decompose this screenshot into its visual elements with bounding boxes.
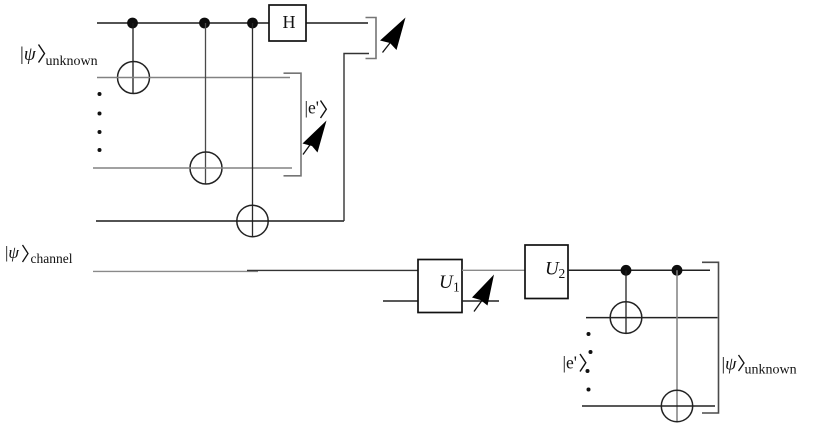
wire q3 bbox=[96, 220, 344, 222]
label ket e' bottom bbox=[563, 353, 586, 373]
wire channel dark segment bbox=[247, 269, 418, 271]
wire q0 segment left (top wire into H) bbox=[97, 22, 270, 24]
gate U2 box bbox=[525, 245, 568, 299]
wire control line from C5 bbox=[676, 270, 678, 422]
control dot C2 bbox=[199, 18, 210, 29]
control dot C5 bbox=[672, 265, 683, 276]
wire b3 bbox=[582, 405, 715, 407]
wire U1 to U2 bbox=[462, 269, 525, 271]
control dot C4 bbox=[621, 265, 632, 276]
wire route from measurement down to q3 bbox=[344, 54, 369, 222]
CNOT target X4 bbox=[610, 302, 642, 334]
measurement arrow A2 head bbox=[303, 121, 327, 153]
wire control line from C4 bbox=[625, 270, 627, 333]
control dot C3 bbox=[247, 18, 258, 29]
svg-text:1: 1 bbox=[453, 280, 460, 295]
CNOT target X1 bbox=[118, 62, 150, 94]
svg-text:H: H bbox=[283, 12, 296, 32]
label ket e' top bbox=[305, 98, 327, 119]
wire control line from C1 bbox=[132, 23, 134, 94]
svg-text:|ψ: |ψ bbox=[722, 354, 738, 374]
wire q1 bbox=[97, 77, 290, 79]
bracket output right bbox=[702, 262, 719, 413]
measurement arrow A3 head bbox=[472, 275, 494, 306]
CNOT target X2 bbox=[190, 152, 222, 184]
label ket psi channel bbox=[5, 243, 73, 266]
svg-text:|e': |e' bbox=[305, 98, 319, 118]
ellipsis dots bottom group bbox=[586, 332, 593, 392]
bracket e' group bbox=[284, 73, 302, 176]
svg-text:channel: channel bbox=[31, 251, 73, 266]
wire channel gray segment bbox=[93, 270, 258, 272]
wire control line from C3 bbox=[252, 23, 254, 237]
svg-text:|ψ: |ψ bbox=[5, 243, 19, 262]
label ket psi unknown right bbox=[722, 354, 797, 378]
wire U2 output bbox=[568, 269, 710, 271]
bracket measurement top-right bbox=[366, 18, 377, 59]
svg-text:unknown: unknown bbox=[745, 363, 797, 378]
gate U1 box bbox=[418, 260, 462, 313]
gate H box bbox=[269, 5, 306, 41]
CNOT target X3 bbox=[237, 205, 268, 236]
wire q2 bbox=[93, 167, 292, 169]
wire U1 second input bbox=[383, 300, 418, 302]
wire q0 segment right (H to measure bracket) bbox=[306, 22, 369, 24]
control dot C1 bbox=[127, 18, 138, 29]
svg-text:U: U bbox=[439, 272, 454, 293]
label ket psi unknown top-left bbox=[20, 44, 98, 69]
CNOT target X5 bbox=[661, 390, 692, 421]
measurement arrow A1 head bbox=[380, 18, 406, 51]
svg-text:|ψ: |ψ bbox=[20, 44, 37, 65]
wire control line from C2 bbox=[205, 23, 207, 184]
wire U1 second output bbox=[462, 300, 499, 302]
measurement arrow A1 tail bbox=[383, 41, 392, 53]
svg-text:2: 2 bbox=[559, 266, 566, 281]
measurement arrow A2 tail bbox=[303, 140, 314, 155]
svg-text:|e': |e' bbox=[563, 353, 577, 373]
svg-text:unknown: unknown bbox=[46, 54, 98, 69]
ellipsis dots top group bbox=[98, 92, 102, 152]
measurement arrow A3 tail bbox=[474, 299, 483, 312]
wire b2 bbox=[586, 317, 718, 319]
